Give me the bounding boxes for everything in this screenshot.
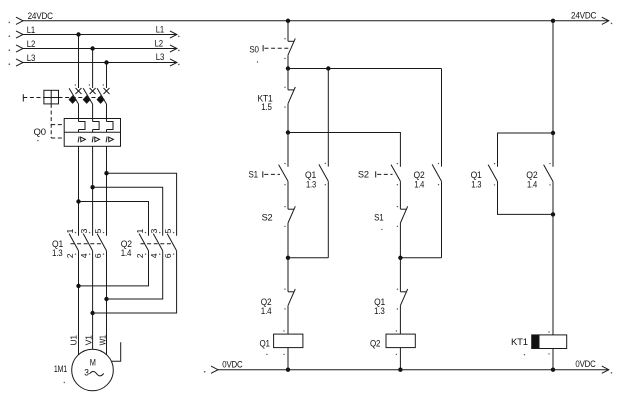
svg-text:1.3: 1.3 [306, 180, 316, 190]
wire L3 supply line [23, 62, 177, 64]
wire L1 supply line [23, 34, 177, 36]
svg-text:V1: V1 [85, 334, 94, 345]
wire node C to Q1 aux bottom [288, 257, 328, 259]
wire Q1 aux bottom [327, 181, 329, 257]
wire node B to branch 2 [288, 133, 400, 167]
wire Q1 pole1 output to motor U1 [78, 251, 80, 355]
wire Q1 aux top [327, 69, 329, 167]
breaker Q0 pole 2 contact with X [90, 88, 96, 94]
breaker Q0 handle linkage dashed [23, 97, 44, 99]
svg-text:6: 6 [164, 253, 173, 258]
wire branch1 to S0 [287, 21, 289, 42]
wire S1 to S2 [287, 181, 289, 209]
timer contact KT1 NC [288, 89, 294, 91]
svg-text:L2: L2 [27, 39, 36, 49]
svg-text:W1: W1 [99, 335, 108, 346]
wire branch1 node A to KT1 [287, 69, 289, 90]
breaker Q0 pole 3 overcurrent release I> [106, 137, 107, 143]
wire 24VDC drop branch 3 [552, 21, 554, 133]
wire L1 drop to breaker [78, 35, 80, 89]
svg-text:1.3: 1.3 [471, 180, 481, 190]
svg-text:KT1: KT1 [511, 337, 528, 347]
svg-text:4: 4 [150, 253, 159, 258]
pushbutton S2 NO start contact [391, 165, 400, 182]
wire S0 to node A [287, 55, 289, 68]
svg-text:Q2: Q2 [414, 170, 425, 180]
svg-text:S1: S1 [249, 170, 259, 180]
node L2 arrow left [16, 45, 23, 52]
svg-text:M: M [90, 357, 96, 367]
svg-text:1: 1 [66, 228, 75, 233]
wire pole 2 bridge to divider [92, 130, 94, 133]
actuator S1 tick [262, 171, 264, 177]
node A junction after S0 [286, 66, 290, 70]
wire node C to Q2 interlock [287, 258, 289, 292]
svg-text:3: 3 [150, 228, 159, 233]
breaker Q0 pole 3 contact bridge in box [107, 122, 114, 130]
node L1 arrow right [170, 31, 177, 38]
node C junction [286, 256, 290, 260]
node junction coil Q1 to rail [286, 368, 290, 372]
node 24VDC source arrow left [16, 17, 23, 24]
actuator S0 dashed [265, 47, 291, 49]
pushbutton S1 NO contact [279, 165, 288, 182]
contact Q2 NC interlock [288, 291, 294, 293]
node F junction [551, 212, 555, 216]
svg-text:Q1: Q1 [260, 338, 270, 348]
motor PE stub [111, 342, 120, 361]
svg-text:1.3: 1.3 [52, 248, 63, 258]
svg-text:L2: L2 [155, 38, 164, 48]
breaker Q0 linkage dashed vertical [50, 104, 52, 138]
node L3 arrow left [16, 59, 23, 66]
actuator S1 dashed [264, 173, 280, 175]
breaker Q0 pole 1 trip element [69, 96, 76, 103]
svg-text:1.4: 1.4 [261, 306, 272, 316]
coil KT1 timer black section [532, 335, 539, 349]
contact Q1 NC interlock [400, 291, 406, 293]
wire coil KT1 to 0VDC [552, 349, 554, 370]
wire Q2 aux top [441, 69, 443, 167]
svg-text:Q0: Q0 [34, 127, 47, 137]
wire node D to Q1 interlock [399, 258, 401, 292]
wire Q2 bottom branch 3 [552, 182, 554, 215]
node L1 arrow left [16, 31, 23, 38]
wire Q2 contact top branch 3 [552, 133, 554, 167]
svg-text:L3: L3 [27, 53, 36, 63]
wire S2 start to S1 interlock [399, 181, 401, 209]
wire Q2 interlock to coil Q1 [287, 306, 289, 335]
node L2 arrow right [170, 45, 177, 52]
contactor Q1 linkage dashed [71, 243, 103, 245]
svg-text:1: 1 [136, 228, 145, 233]
svg-text:3: 3 [84, 368, 89, 378]
breaker Q0 pole 1 contact bridge in box [79, 122, 86, 130]
svg-text:U1: U1 [70, 334, 79, 345]
wire Q1 interlock to coil Q2 [399, 306, 401, 335]
contactor Q2 main contacts [139, 234, 148, 251]
node junction coil Q2 to rail [398, 368, 402, 372]
wire node E to Q1 contact [498, 133, 554, 167]
node junction U1 merge [76, 284, 80, 288]
svg-text:L3: L3 [156, 52, 165, 62]
breaker Q0 pole 3 contact with X [104, 88, 110, 94]
svg-text:2: 2 [136, 253, 145, 258]
svg-text:Q1: Q1 [471, 170, 482, 180]
breaker Q0 trip linkage dashed horizontal [59, 97, 102, 99]
wire L3 drop to breaker [106, 63, 108, 89]
node junction Q1 aux tap [326, 66, 330, 70]
node E junction branch 3 top [551, 131, 555, 135]
node junction L2 tap [90, 46, 94, 50]
svg-text:6: 6 [94, 253, 103, 258]
breaker Q0 linkage dashed stub lower [51, 137, 64, 139]
wire L1 branch to Q2 pole 1 [79, 202, 149, 236]
wire node D to Q2 aux bottom [400, 257, 441, 259]
wire pole 3 bridge to divider [106, 130, 108, 133]
node D junction [398, 256, 402, 260]
actuator S0 tick [262, 45, 264, 51]
contactor Q1 main contacts [69, 234, 78, 251]
svg-text:S0: S0 [249, 44, 259, 54]
coil Q2 [386, 334, 415, 348]
svg-text:Q2: Q2 [526, 170, 537, 180]
pushbutton S1 NC interlock [400, 208, 406, 210]
wire Q1 pole2 output to motor V1 [92, 251, 94, 350]
svg-text:5: 5 [164, 228, 173, 233]
wire breaker pole 3 to box [106, 104, 108, 122]
contact Q2 auxiliary NO [432, 164, 441, 181]
svg-text:L1: L1 [156, 25, 164, 35]
node junction coil KT1 to rail [551, 368, 555, 372]
breaker Q0 pole 2 trip element [83, 96, 90, 103]
breaker Q0 pole 1 contact with X [76, 88, 82, 94]
wire L3 branch to Q2 pole 5 [107, 173, 177, 236]
node L3 arrow right [170, 59, 177, 66]
breaker Q0 pole 2 contact bridge in box [93, 122, 100, 130]
wire pole 3 box to Q1 contact [106, 146, 108, 236]
node junction 24VDC branch 3 [551, 19, 555, 23]
wire pole 1 bridge to divider [78, 130, 80, 133]
svg-text:24VDC: 24VDC [28, 11, 54, 21]
motor tilde symbol [90, 372, 104, 376]
svg-text:Q1: Q1 [305, 170, 316, 180]
node junction V1 merge [90, 311, 94, 315]
svg-text:1.4: 1.4 [414, 180, 424, 190]
wire Q2 pole 4 output crossover [107, 251, 163, 299]
motor 1M1 circle [72, 349, 114, 391]
wire Q2 aux bottom [441, 181, 443, 257]
svg-text:Q2: Q2 [370, 338, 380, 348]
wire S1 interlock to node D [399, 223, 401, 258]
wire pole 1 box to Q1 contact [78, 146, 80, 236]
node junction L3 tap [104, 60, 108, 64]
node B junction after KT1 [286, 130, 290, 134]
svg-text:1.5: 1.5 [261, 102, 272, 112]
svg-text:5: 5 [94, 228, 103, 233]
node junction W1 merge [104, 297, 108, 301]
node junction 24VDC branch 1 [286, 19, 290, 23]
wire Q2 pole 2 output crossover [79, 251, 149, 286]
wire KT1 to node B [287, 104, 289, 133]
breaker Q0 manual handle tick [22, 94, 24, 101]
svg-text:S1: S1 [374, 213, 384, 223]
svg-text:3: 3 [80, 228, 89, 233]
breaker Q0 pole 1 overcurrent release I> [78, 137, 79, 143]
contact Q1 NO for timer [488, 165, 497, 182]
node 0VDC arrow right [602, 366, 609, 373]
wire 24VDC top rail [23, 20, 609, 22]
svg-text:1.3: 1.3 [374, 306, 385, 316]
coil KT1 timer body [539, 335, 567, 349]
pushbutton S0 NC contact [288, 40, 294, 42]
svg-text:24VDC: 24VDC [571, 10, 597, 20]
contactor Q2 linkage dashed [141, 243, 173, 245]
wire coil Q1 to 0VDC [287, 348, 289, 370]
wire pole 2 box to Q1 contact [92, 146, 94, 236]
wire node A to Q2 aux branch [288, 68, 442, 70]
wire L2 supply line [23, 48, 177, 50]
svg-text:S2: S2 [262, 213, 273, 223]
contact Q1 auxiliary NO [319, 164, 328, 181]
node junction L3 branch to Q2 [104, 171, 108, 175]
coil Q1 [274, 334, 303, 348]
wire Q2 pole 6 output crossover [93, 251, 177, 313]
svg-text:4: 4 [80, 253, 89, 258]
pushbutton S2 NC interlock contact [288, 208, 294, 210]
breaker Q0 overload box [64, 119, 120, 147]
actuator S2 dashed [377, 173, 392, 175]
contact Q2 NO for timer [544, 165, 553, 182]
wire coil Q2 to 0VDC [399, 348, 401, 370]
node junction L1 branch to Q2 [76, 199, 80, 203]
wire L2 branch to Q2 pole 3 [93, 187, 163, 236]
node 0VDC chevron left [211, 366, 218, 373]
wire Q1 pole3 output to motor W1 [106, 251, 108, 355]
svg-text:1.4: 1.4 [121, 248, 132, 258]
wire node F to coil KT1 [552, 214, 554, 335]
wire breaker pole 2 to box [92, 104, 94, 122]
svg-text:L1: L1 [27, 25, 35, 35]
node 24VDC arrow right [602, 17, 609, 24]
node junction L1 tap [76, 32, 80, 36]
wire Q1 bottom to node F [498, 182, 554, 215]
wire S2 to node C [287, 223, 289, 258]
actuator S2 tick [375, 171, 377, 177]
svg-text:S2: S2 [358, 170, 369, 180]
svg-text:1.4: 1.4 [527, 180, 537, 190]
svg-text:2: 2 [66, 253, 75, 258]
wire L2 drop to breaker [92, 49, 94, 89]
wire 0VDC bottom rail [218, 369, 609, 371]
svg-text:1M1: 1M1 [54, 364, 67, 374]
breaker Q0 pole 2 overcurrent release I> [92, 137, 93, 143]
breaker Q0 linkage dashed stub upper [51, 124, 64, 126]
wire node B down to S1 [287, 133, 289, 167]
node junction L2 branch to Q2 [90, 185, 94, 189]
breaker Q0 pole 3 trip element [97, 96, 104, 103]
breaker Q0 handle square [44, 90, 59, 104]
wire breaker pole 1 to box [78, 104, 80, 122]
svg-text:0VDC: 0VDC [222, 360, 243, 370]
svg-text:0VDC: 0VDC [575, 359, 596, 369]
